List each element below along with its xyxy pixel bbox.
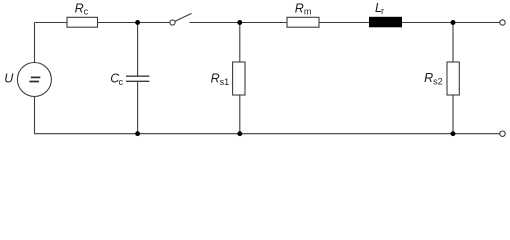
resistor R_s1 bbox=[233, 62, 245, 95]
terminal bottom-right bbox=[500, 131, 505, 136]
node n1 top junction bbox=[135, 20, 140, 25]
svg-text:R: R bbox=[75, 1, 84, 15]
wire bottom rail bbox=[35, 133, 500, 135]
wire top: switch right contact to node n2 to R_m bbox=[190, 22, 288, 24]
wire: R_s1 branch lower bbox=[239, 95, 241, 134]
wire: R_s2 branch lower bbox=[452, 95, 454, 134]
switch S (open) bbox=[170, 13, 192, 25]
node n2 top junction bbox=[237, 20, 242, 25]
resistor R_s2 bbox=[447, 62, 459, 95]
wire left: top corner down to source bbox=[34, 23, 36, 63]
node n3 bottom junction bbox=[451, 131, 456, 136]
label R_s2 bbox=[424, 71, 443, 87]
label R_s1 bbox=[211, 71, 230, 87]
svg-text:s1: s1 bbox=[220, 77, 230, 87]
wire top: L_r through node n3 to terminal bbox=[402, 22, 500, 24]
wire top: R_m to L_r bbox=[319, 22, 369, 24]
svg-text:c: c bbox=[84, 7, 89, 17]
node n2 bottom junction bbox=[237, 131, 242, 136]
svg-text:U: U bbox=[4, 71, 14, 85]
wire top: left corner to R_c bbox=[35, 22, 68, 24]
terminal top-right bbox=[500, 20, 505, 25]
wire: C_c branch upper bbox=[137, 23, 139, 77]
svg-text:r: r bbox=[381, 6, 384, 16]
resistor R_c bbox=[67, 17, 98, 27]
node n1 bottom junction bbox=[135, 131, 140, 136]
wire: C_c branch lower bbox=[137, 81, 139, 133]
node n3 top junction bbox=[451, 20, 456, 25]
wire: R_s2 branch upper bbox=[452, 23, 454, 63]
wire left: source to bottom corner bbox=[34, 96, 36, 133]
label C_c bbox=[110, 72, 123, 87]
svg-text:m: m bbox=[304, 7, 312, 17]
label R_c bbox=[75, 1, 89, 16]
inductor L_r (filled bar) bbox=[369, 17, 402, 28]
wire top: R_c to node n1 and switch contact bbox=[98, 22, 170, 24]
label L_r bbox=[375, 1, 384, 16]
svg-text:R: R bbox=[424, 71, 433, 85]
resistor R_m bbox=[287, 17, 319, 27]
label R_m bbox=[295, 1, 312, 16]
voltage source U (DC) bbox=[17, 63, 51, 97]
svg-text:R: R bbox=[295, 1, 304, 15]
svg-text:c: c bbox=[119, 77, 124, 87]
wire: R_s1 branch upper bbox=[239, 23, 241, 63]
svg-text:R: R bbox=[211, 71, 220, 85]
capacitor C_c bbox=[126, 76, 149, 81]
svg-text:s2: s2 bbox=[433, 77, 443, 87]
